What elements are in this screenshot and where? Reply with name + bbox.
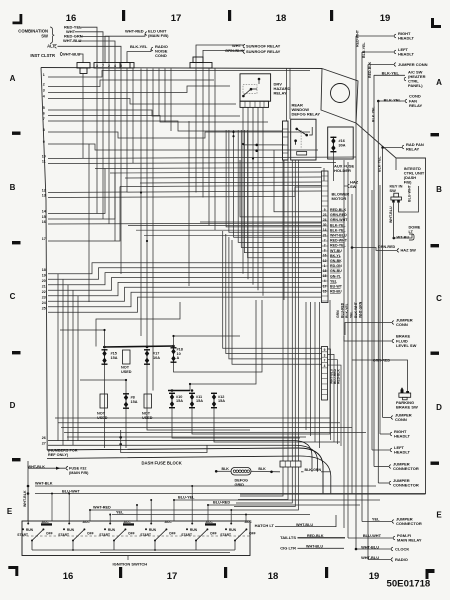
wire brake fluid [344,336,392,341]
wire WHT-RED to ELD [105,34,145,64]
zone tick left [12,458,21,461]
svg-text:SW: SW [390,188,397,193]
wire trunk v1 [140,69,142,337]
defog relay pin wire 4 [294,160,296,461]
wire column drop 3 [314,302,316,442]
wire wht-blk to fuse32 [28,467,66,469]
svg-text:RUN: RUN [108,528,116,532]
svg-text:BLU-WHT: BLU-WHT [62,489,80,493]
dome lt connector symbol [409,234,414,240]
svg-text:3: 3 [96,64,98,68]
svg-text:BLK-YEL: BLK-YEL [372,106,376,122]
wire row 10 [48,157,356,159]
wire to sunroof relay 2 [203,50,243,63]
svg-text:HEADLT: HEADLT [394,434,410,439]
wire row 13 [48,187,322,198]
wire feeder pin 5 [229,130,322,232]
svg-text:19: 19 [380,13,391,24]
svg-text:GN-BU: GN-BU [330,269,342,273]
svg-text:HEADLT: HEADLT [398,36,414,41]
svg-text:F/B): F/B) [404,180,412,185]
lower pin column output wires [328,349,331,440]
wire to sunroof relay 1 [196,45,243,63]
svg-text:#12: #12 [218,395,224,399]
wire row 8 [48,132,310,138]
svg-text:#17: #17 [153,351,159,355]
wire WHT to pin 7 [75,32,103,63]
svg-text:RED-BLK: RED-BLK [337,369,341,384]
wire feeder pin 6 [234,130,322,237]
svg-text:3: 3 [324,353,326,357]
fuse 18 out [174,300,263,372]
zone tick left [12,132,21,135]
svg-text:SUNROOF RELAY: SUNROOF RELAY [246,49,281,54]
svg-text:HAZ SW: HAZ SW [401,248,417,253]
drv relay pin wire 1 [242,107,244,273]
svg-text:21: 21 [42,284,46,288]
svg-text:18: 18 [323,269,327,273]
svg-text:YEL: YEL [116,510,124,514]
svg-text:7: 7 [102,64,104,68]
wire trunk v6 [170,69,172,132]
wire row 17 [48,187,120,242]
fuse 15 out [104,365,106,448]
defog relay pin wire 2 [287,160,289,461]
svg-text:RUN: RUN [190,528,198,532]
corner mark top-left [12,14,22,24]
defog relay box [291,119,316,160]
svg-text:17: 17 [171,13,182,24]
wire feeder pin 8 [241,130,321,248]
svg-text:GRN-RED: GRN-RED [378,245,396,249]
svg-text:OFF: OFF [128,532,135,536]
pgm-fi main relay label [393,536,395,540]
svg-text:DEFOG RELAY: DEFOG RELAY [292,112,321,117]
svg-text:11: 11 [42,159,46,163]
defog relay pin wire 1 [282,160,284,461]
dash fuse block outline bottom edge [47,448,323,494]
svg-text:START: START [220,533,231,537]
svg-text:RD-GN: RD-GN [330,264,342,268]
svg-text:15A: 15A [196,399,203,403]
svg-text:RUN: RUN [149,528,157,532]
svg-text:BLK-YEL: BLK-YEL [382,71,400,76]
integ ctrl unit box [396,158,426,185]
zone tick top [330,10,333,21]
svg-text:YEL: YEL [330,279,338,283]
defog relay pin wire 5 [297,160,299,461]
svg-text:7: 7 [43,117,45,121]
wire row 18 long [48,263,322,274]
svg-text:BU-WT: BU-WT [330,285,343,289]
zone tick right [431,352,440,355]
svg-text:BLU-RED: BLU-RED [213,501,230,505]
ignition feed risers [27,486,29,524]
svg-text:18: 18 [276,13,287,24]
svg-text:9: 9 [324,348,326,352]
svg-text:12: 12 [323,259,327,263]
jumper connector label 2 [389,481,391,485]
wire pin feed long [128,225,322,227]
svg-text:1: 1 [324,264,326,268]
svg-text:RELAY: RELAY [406,147,420,152]
svg-text:WT-BU: WT-BU [397,234,410,239]
wire trunk v10 [214,68,216,230]
svg-text:FUSE #32: FUSE #32 [69,466,87,470]
svg-text:YEL: YEL [372,517,380,522]
svg-text:OFF: OFF [46,532,53,536]
wire WHT-BLU inst clstr [77,54,83,63]
wire stair drop 3 [229,237,322,359]
svg-text:OFF: OFF [87,532,94,536]
svg-text:BLK: BLK [222,467,230,471]
svg-text:23: 23 [42,295,46,299]
defog connector row [280,461,301,467]
wire trunk v3 [152,69,154,391]
wire left drop 1 [57,274,59,441]
fuse32 arrow [56,467,60,470]
diagonal to integ ctrl unit box [356,123,396,158]
wire feeder pin 9 [244,130,321,253]
svg-text:23: 23 [323,213,327,217]
svg-text:#11: #11 [196,395,202,399]
combination sw pin row [94,63,130,69]
svg-text:JUMPER CONN: JUMPER CONN [398,62,428,67]
corner mark bottom-left [8,566,18,576]
svg-text:D: D [436,403,442,412]
wire right headlt lower [380,433,390,435]
blower motor wire up [323,168,325,181]
wire blk-yel cond fan [378,100,405,102]
svg-text:RUN: RUN [67,528,75,532]
wire jumper conn C [345,323,392,336]
svg-text:WHT-RED: WHT-RED [93,505,111,509]
svg-text:C: C [10,292,16,301]
hook inst clstr [60,52,62,56]
wire left drop 5 [77,296,79,441]
wire row 9 [48,144,318,150]
svg-text:27: 27 [42,441,46,445]
blu-yel wire [174,499,380,501]
wire wt-bu to dome [394,234,412,239]
svg-text:WHT-RED: WHT-RED [125,28,144,33]
svg-text:13: 13 [42,193,46,197]
svg-text:START: START [17,533,28,537]
svg-text:RELAY: RELAY [274,91,288,96]
right headlight label lower [390,432,392,436]
svg-text:BLK-GRN: BLK-GRN [305,468,322,472]
trapezoid circle [331,84,350,103]
svg-text:WHT-BLK: WHT-BLK [35,481,53,485]
blu-red wire [208,504,360,506]
svg-text:(MAIN F/B): (MAIN F/B) [148,33,169,38]
svg-text:B: B [10,183,16,192]
drv relay pin wire 5 [262,107,264,295]
svg-text:BLK-YEL: BLK-YEL [384,98,402,103]
svg-text:16: 16 [42,220,46,224]
svg-text:2: 2 [43,82,45,86]
wire top connector drop 3 [102,68,104,219]
wire ALT [58,46,122,63]
svg-text:19: 19 [42,273,46,277]
svg-text:LEVEL SW: LEVEL SW [396,343,417,348]
fuse slot not used 1 [123,350,131,364]
wire feeder pin 4 [226,130,321,227]
a/c switch label [404,77,406,81]
right trunk verticals from top labels [355,36,357,549]
svg-text:(NUMBERS FOR: (NUMBERS FOR [48,449,78,453]
wire right trunk 4 [379,185,381,434]
wire lower bus 2 [58,422,340,424]
wire vertical x189 [188,121,190,286]
zone tick bottom [224,567,227,578]
wire feeder pin 7 [238,130,321,242]
wire stair drop 4 [232,240,322,364]
fuse 17/18 feed [174,336,241,346]
harness trapezoid top-right [321,69,358,124]
wire right trunk 2 [347,162,349,538]
wire grn-red haz sw [352,248,397,251]
svg-text:8: 8 [43,128,45,132]
wire top connector drop 8 [132,68,134,164]
clock label [391,547,393,551]
defog grid wires [216,470,231,472]
wire row 16 [48,223,322,224]
svg-text:24: 24 [42,301,46,305]
wire column drop 2 [310,302,312,436]
defog relay internals [296,129,307,145]
svg-text:WHT-GRN: WHT-GRN [359,301,363,318]
wire blu-wht key in [399,186,419,212]
wire row 14 [48,169,105,214]
svg-text:22: 22 [42,290,46,294]
wire row 11 [48,163,336,164]
svg-text:YEL: YEL [350,311,354,318]
sunroof connector upper box [193,57,203,63]
svg-text:RED-WHT: RED-WHT [330,239,348,243]
svg-text:OFF: OFF [249,532,256,536]
svg-text:25: 25 [42,306,46,310]
svg-text:E: E [436,511,442,520]
fuse 11 out [192,300,330,434]
svg-text:HEADLT: HEADLT [398,52,414,57]
wire row 7 [48,121,282,131]
corner mark top-right [431,18,441,28]
ignition switch bottom bus [32,549,235,551]
svg-text:30: 30 [323,223,327,227]
wire left drop 4 [72,290,74,445]
svg-text:14: 14 [42,209,46,213]
svg-text:ACC: ACC [83,520,91,524]
zone tick top [228,10,231,21]
svg-text:A: A [177,356,180,360]
aux fuse output wire [332,153,334,182]
svg-text:BLK-YEL: BLK-YEL [345,303,349,318]
wire blk-grn [301,471,304,473]
svg-text:15: 15 [323,289,327,293]
wire left drop 2 [62,279,64,445]
svg-text:#10: #10 [176,395,182,399]
junction dots [242,143,244,145]
wires top edge to defog relay [286,69,288,122]
wire lower bus 4 [64,431,366,433]
zone tick right [431,133,440,136]
wire row 4 [48,99,236,105]
svg-text:ALT: ALT [47,44,55,49]
wire row 21 long [48,278,322,291]
svg-text:HATCH LT: HATCH LT [255,523,275,528]
wire row 23 long [48,287,322,301]
left headlight label [394,50,396,54]
drv relay pin wire 3 [252,107,254,284]
wire wht-blu radio [368,559,391,561]
svg-text:OFF: OFF [169,532,176,536]
svg-text:21: 21 [323,233,327,237]
svg-text:CONN: CONN [396,322,408,327]
zone tick right [431,244,440,247]
svg-text:2: 2 [108,64,110,68]
wire trunk v9 [208,68,210,226]
wire right trunk 5 [371,190,373,450]
wire mid bus [120,186,322,187]
hook alt [55,45,57,49]
wire lower bus 3 [61,427,352,429]
svg-text:B: B [436,185,442,194]
svg-text:10: 10 [177,352,181,356]
bottom edge corner junctions [119,436,122,439]
svg-text:GRN-RED: GRN-RED [330,213,347,217]
wire rad fan relay [383,147,402,149]
svg-text:WHT-BLK: WHT-BLK [23,490,27,507]
svg-text:RED-BLK: RED-BLK [368,61,372,78]
svg-text:PANEL): PANEL) [408,83,423,88]
right boundary line [425,185,427,494]
left headlight label lower [390,448,392,452]
wire trunk v7 [195,68,197,193]
svg-text:16: 16 [66,13,77,24]
wires into defog strip [243,144,285,146]
fuse slot not used 2 [100,394,108,408]
fuse bus row2 [168,390,190,392]
ignition switch box [22,521,250,556]
svg-text:BLK: BLK [258,467,266,471]
svg-text:C: C [436,294,442,303]
wire row 6 [48,116,268,123]
wire top connector drop 6 [120,68,122,274]
drv hazard relay connector row [240,101,269,107]
svg-text:10: 10 [42,154,46,158]
wire row 22 long [48,282,322,295]
svg-text:NOT: NOT [121,366,130,370]
svg-text:#8: #8 [131,395,135,399]
jumper connector label 3 [392,520,394,524]
dash fuse block outline left edge [41,68,47,451]
svg-text:19: 19 [369,571,380,582]
fuse 16 30A [330,137,336,153]
svg-text:BLU-WHT: BLU-WHT [363,533,382,538]
svg-text:BLK-WHT: BLK-WHT [354,301,358,318]
fuse slot not used 3 [144,394,152,408]
jumper conn label D [391,416,393,420]
svg-text:CONNECTOR: CONNECTOR [393,466,419,471]
svg-text:CONN: CONN [395,417,407,422]
svg-text:A: A [10,74,16,83]
wire row 3 [48,86,230,93]
radio cond connector [120,63,134,69]
svg-text:LT: LT [409,229,414,234]
svg-text:6: 6 [43,111,45,115]
condenser fan relay label [405,99,407,103]
wire stair drop 2 [226,234,322,354]
sunroof relay connector [190,63,212,69]
wire feeder pin 1 [274,150,322,212]
wire top connector drop 2 [96,68,98,214]
wire row 25 long [48,297,322,312]
wire RED-YEL to pin 3 [80,27,97,63]
wire top connector drop 4 [108,68,110,224]
svg-text:SUNROOF RELAY: SUNROOF RELAY [246,43,281,48]
wire mid bus [110,172,322,173]
svg-text:15: 15 [323,274,327,278]
combination sw brace [50,27,54,43]
radio label [391,558,393,562]
drv relay pin wire 4 [257,107,259,290]
wire cig ltr [298,547,345,549]
wire feeder pin 2 [240,160,322,217]
svg-text:HEADLT: HEADLT [394,450,410,455]
svg-text:50E01718: 50E01718 [387,579,431,590]
zone tick top [122,10,125,21]
svg-text:DASH FUSE BLOCK: DASH FUSE BLOCK [142,461,182,466]
svg-text:START: START [99,533,110,537]
zone tick left [12,241,21,244]
svg-text:9: 9 [43,140,45,144]
wire lower bus 5 [67,436,306,438]
svg-text:2: 2 [324,244,326,248]
inst cluster connector [77,63,90,69]
wire RED-GRN to pin [80,36,109,63]
wire mid bus [125,177,322,178]
wire jumper connector 1 [374,466,389,468]
brake fluid level switch label [392,339,394,343]
svg-text:RUN: RUN [229,528,237,532]
wire left headlt lower [372,449,390,451]
right headlight label [394,34,396,38]
svg-text:D: D [10,401,16,410]
svg-text:E: E [7,507,13,516]
svg-text:BLK-YEL: BLK-YEL [130,44,148,49]
svg-text:CIG LTR: CIG LTR [280,546,296,551]
wire row 2 [48,80,214,87]
wire pin feed long [144,234,322,236]
svg-text:DEFOG: DEFOG [235,479,249,483]
ignition switch dashed line [22,535,250,537]
wire mid bus [140,182,322,183]
drv relay pin wire 2 [247,107,249,279]
svg-text:RD-BU: RD-BU [330,290,342,294]
svg-text:REF ONLY): REF ONLY) [48,453,69,457]
svg-text:4: 4 [324,364,326,368]
svg-text:USED: USED [121,370,132,374]
wht-red wire [90,509,230,511]
wire BLK-YEL to radio cond [127,49,151,63]
radiator fan relay label [402,145,404,149]
svg-text:4: 4 [43,94,45,98]
svg-text:RADIO: RADIO [395,557,408,562]
svg-text:18: 18 [268,571,279,582]
wire jumper conn [368,64,394,66]
wire right trunk 1 [343,160,345,528]
